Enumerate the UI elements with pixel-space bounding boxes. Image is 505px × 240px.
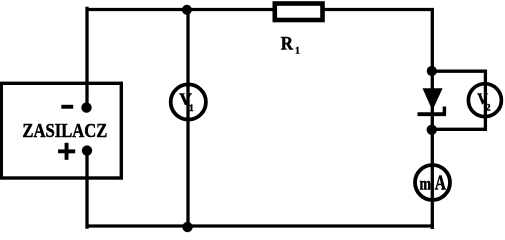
voltmeter V2 circle [468, 84, 501, 117]
milliammeter mA circle [415, 165, 450, 200]
node bottom junction (V1 branch) [182, 222, 192, 232]
node anode junction [427, 66, 437, 76]
wire left vertical lower (plus terminal to bottom corner) [85, 149, 88, 229]
voltmeter V1 circle [171, 84, 206, 119]
plus terminal dot [82, 145, 92, 155]
svg-text:ZASILACZ: ZASILACZ [22, 120, 107, 142]
wire top horizontal [86, 8, 434, 11]
svg-text:1: 1 [295, 46, 300, 56]
wire right vertical [431, 8, 434, 229]
wire bottom horizontal [86, 224, 434, 227]
plus sign [58, 149, 75, 153]
minus terminal dot [81, 102, 91, 112]
wire V1 branch vertical [186, 8, 189, 228]
wire V2 bracket [432, 71, 486, 129]
node cathode junction [427, 125, 437, 135]
resistor R1 body [275, 4, 323, 21]
svg-text:A: A [435, 170, 447, 194]
minus sign [61, 105, 73, 109]
svg-text:2: 2 [486, 104, 491, 114]
zener diode cathode bar [418, 112, 447, 116]
svg-text:m: m [420, 174, 432, 194]
power supply box ZASILACZ [1, 83, 121, 178]
zener diode triangle [423, 88, 443, 110]
zener diode bent tip [443, 107, 447, 115]
svg-text:R: R [281, 34, 294, 54]
node top junction (V1 branch) [182, 5, 192, 15]
wire left vertical upper (top corner to minus terminal) [85, 7, 88, 106]
svg-text:1: 1 [189, 104, 194, 114]
